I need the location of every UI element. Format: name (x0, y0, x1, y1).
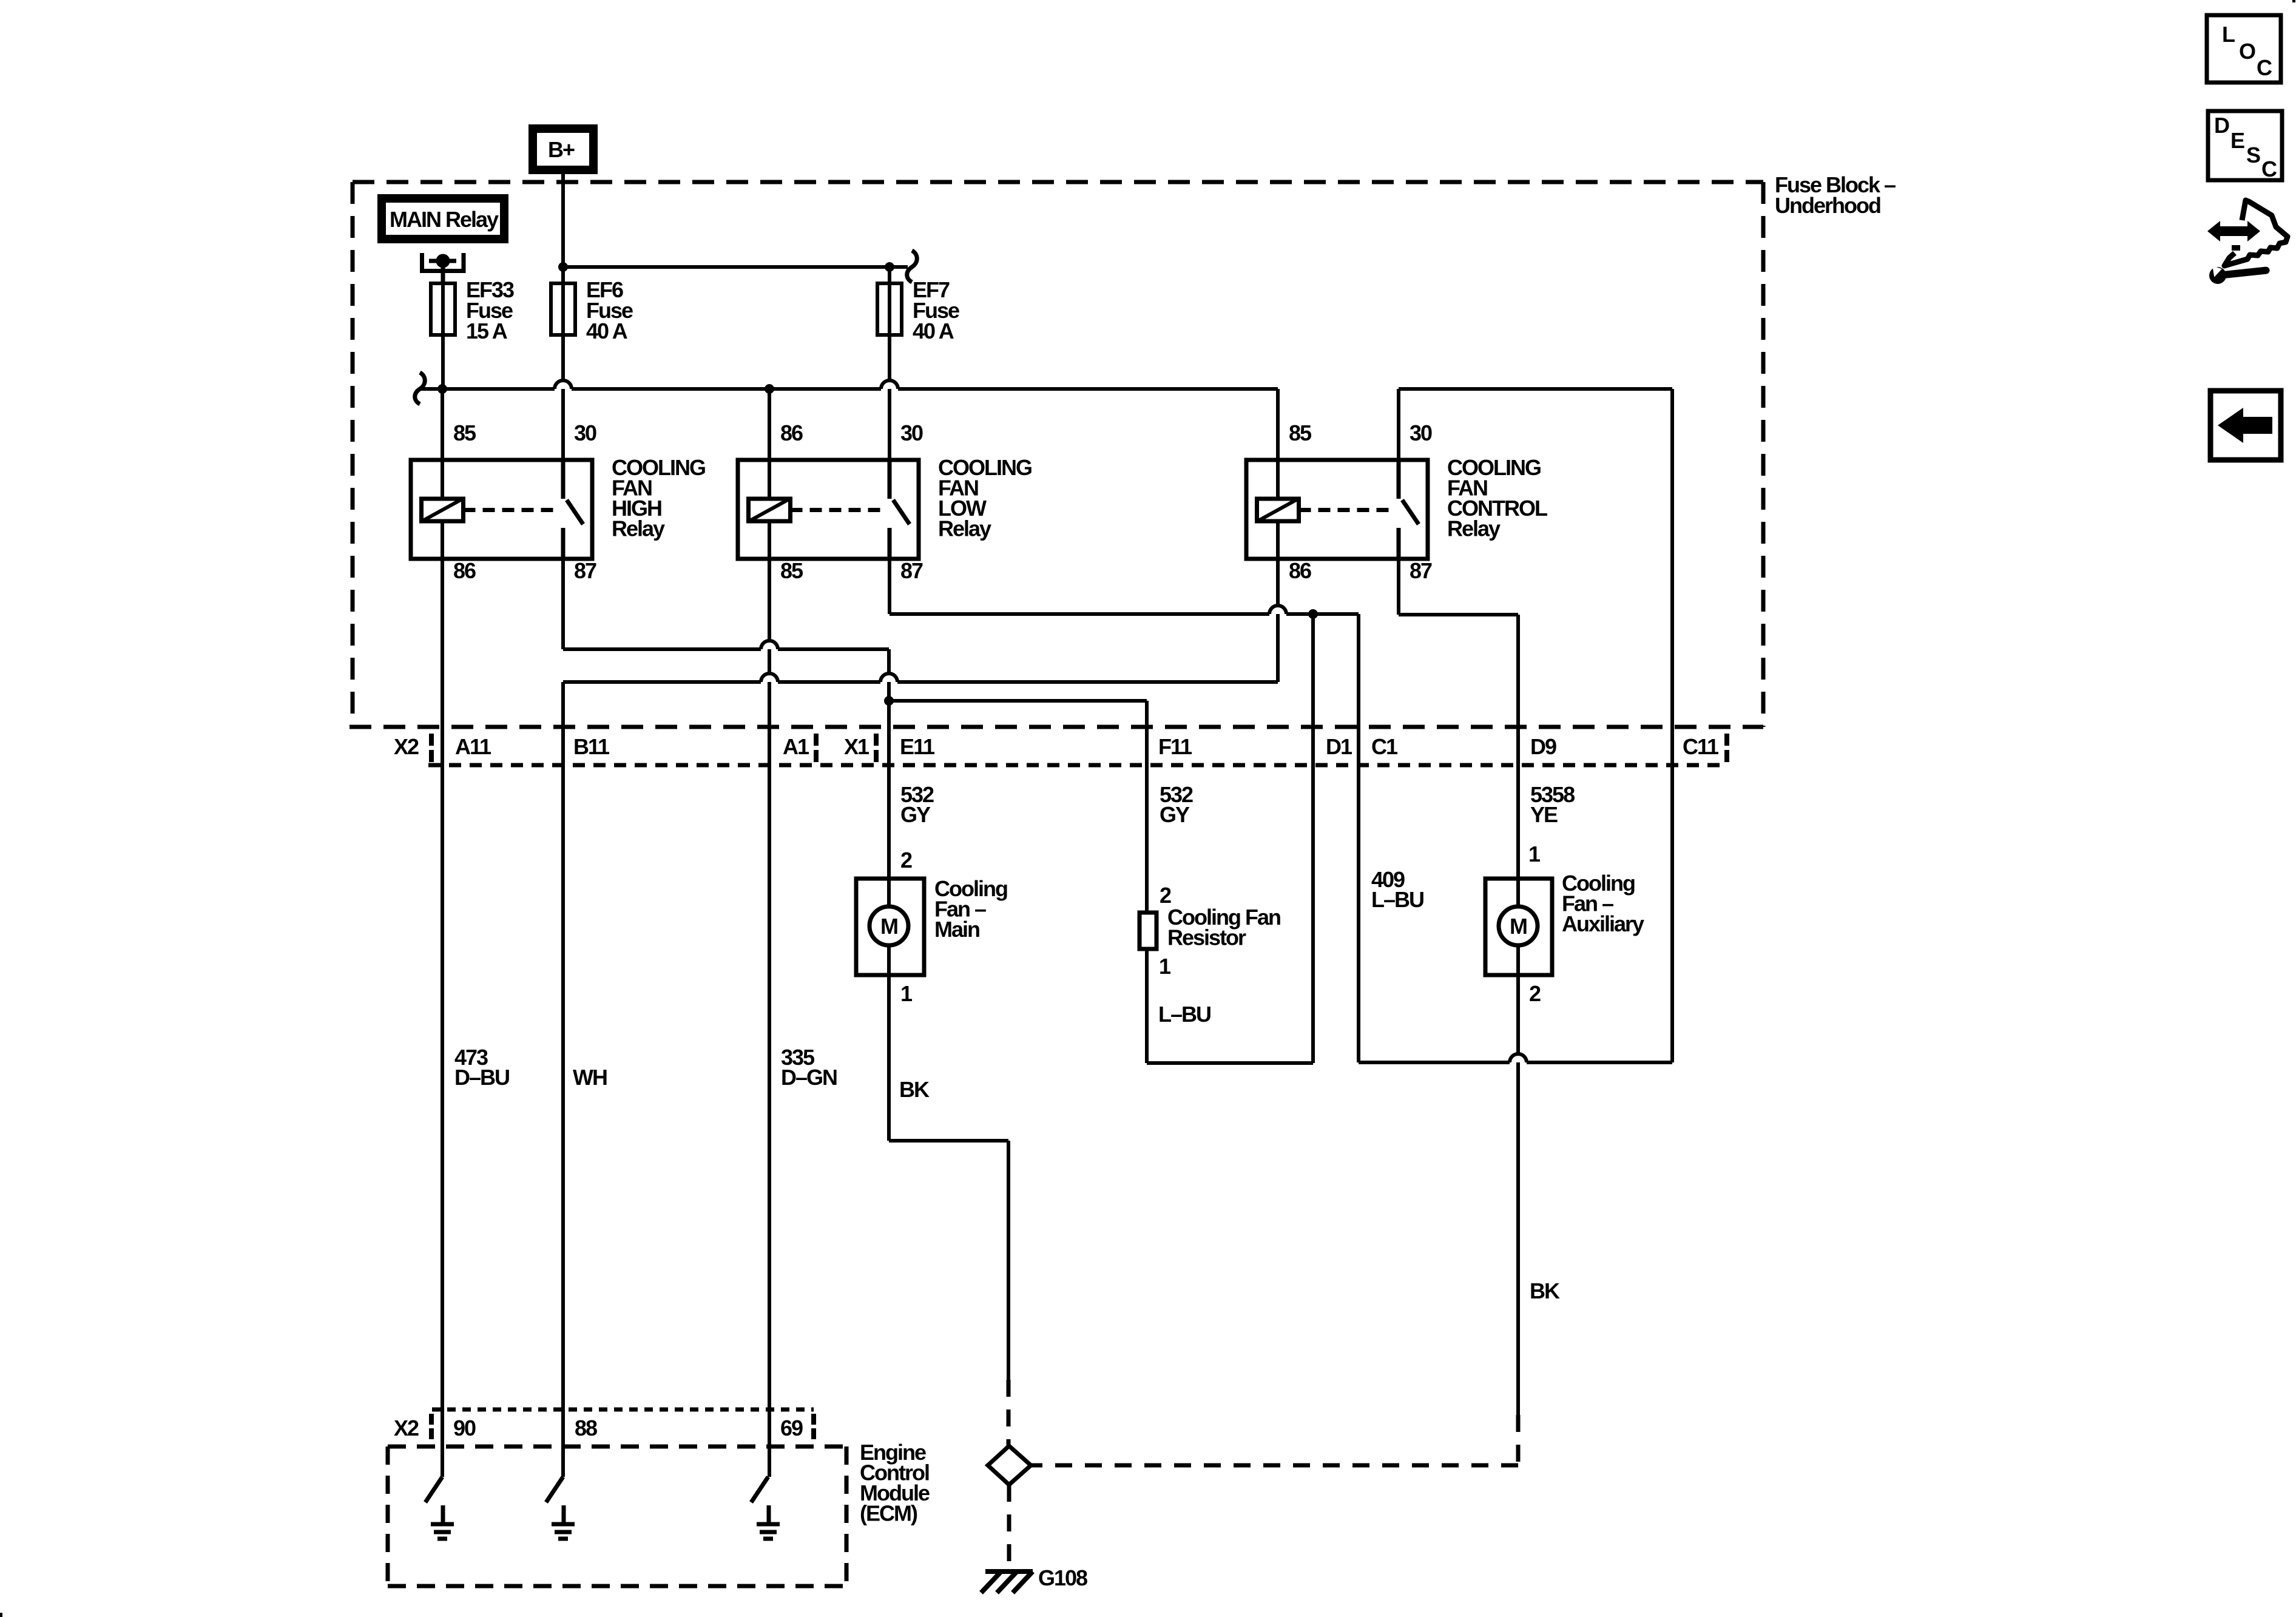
svg-text:Relay: Relay (612, 516, 665, 541)
ECM connector labels X2 90 88 69 (394, 1416, 803, 1440)
ECM connector row dotted line (432, 1408, 814, 1412)
icon LOC box (2207, 15, 2281, 83)
relay COOLING FAN HIGH coil-to-contact dashed link (464, 508, 559, 512)
dashed wire splice to G108 (1007, 1485, 1011, 1570)
svg-text:D–BU: D–BU (454, 1065, 509, 1090)
svg-text:M: M (880, 914, 897, 939)
relay COOLING FAN LOW switch contact (890, 460, 910, 559)
relay COOLING FAN LOW name label (938, 455, 1032, 541)
svg-text:1: 1 (1528, 842, 1541, 866)
wire B+ to EF7 link with junction dots (558, 262, 908, 272)
wire EF33 bus junction to high relay pin 85 (441, 389, 444, 460)
wire B+ down to EF6 fuse (561, 174, 565, 283)
fuse EF33 15A (431, 277, 514, 343)
svg-text:C: C (2257, 55, 2272, 80)
ECM box dashed (388, 1447, 846, 1586)
svg-text:87: 87 (574, 558, 596, 583)
wire low relay 87 right to C1 with D1 junction (890, 559, 1359, 619)
ECM connector separator marks (431, 1414, 814, 1439)
svg-text:G108: G108 (1038, 1565, 1087, 1590)
svg-text:C11: C11 (1683, 734, 1719, 759)
label Engine Control Module (ECM) (860, 1440, 930, 1526)
corner tick bottom-left (0, 1613, 2, 1617)
svg-text:O: O (2239, 39, 2255, 64)
svg-text:Auxiliary: Auxiliary (1562, 911, 1644, 936)
wire low relay 85 to ECM connector A1/69 (768, 559, 771, 1477)
svg-text:85: 85 (780, 558, 803, 583)
svg-text:Relay: Relay (1447, 516, 1501, 541)
relay COOLING FAN CONTROL coil-to-contact dashed link (1299, 508, 1394, 512)
corner tick top-right (2292, 0, 2295, 2)
svg-text:85: 85 (453, 420, 476, 445)
svg-text:E: E (2230, 128, 2244, 153)
bus wire fuses to relay coils with crossover bumps (421, 380, 1278, 394)
svg-text:1: 1 (900, 981, 913, 1006)
svg-text:15 A: 15 A (466, 319, 508, 343)
svg-text:88: 88 (575, 1416, 597, 1440)
svg-text:BK: BK (899, 1077, 930, 1102)
svg-text:B+: B+ (548, 137, 575, 162)
svg-text:86: 86 (780, 420, 803, 445)
ECM driver switch and ground for pin 69 (751, 1477, 780, 1539)
wire label 5358 YE (D9) (1530, 782, 1575, 827)
dashed wire to splice diamond (1007, 1380, 1011, 1447)
connector pin labels X2 A11 B11 A1 X1 E11 F11 D1 C1 D9 C11 (394, 734, 1719, 759)
wire high relay 86 to ECM connector A11/90 (441, 559, 444, 1477)
wire EF6 fuse to high relay pin 30 (561, 335, 565, 460)
relay COOLING FAN HIGH pin labels (453, 420, 596, 583)
svg-text:C: C (2261, 157, 2277, 181)
svg-text:L–BU: L–BU (1371, 887, 1423, 912)
svg-text:30: 30 (900, 420, 923, 445)
motor Cooling Fan - Auxiliary (1485, 879, 1552, 975)
label Fuse Block - Underhood (1775, 172, 1896, 218)
relay COOLING FAN HIGH coil (422, 460, 464, 559)
svg-text:BK: BK (1530, 1278, 1560, 1303)
ECM driver switch and ground for pin 90 (425, 1477, 454, 1539)
wire EF33 fuse to bus junction (441, 335, 445, 389)
relay COOLING FAN LOW pin labels (780, 420, 923, 583)
resistor Cooling Fan Resistor (1140, 905, 1280, 950)
svg-text:2: 2 (900, 848, 912, 873)
wire EF7 fuse to low relay pin 30 (888, 335, 891, 460)
svg-text:YE: YE (1530, 802, 1558, 827)
fuse EF6 40A (551, 277, 633, 343)
wire bus to control relay pin 85 (1276, 389, 1280, 460)
wire label 473 D-BU (A11) (454, 1045, 509, 1090)
icon DESC box (2208, 111, 2282, 181)
svg-text:S: S (2246, 143, 2260, 167)
relay COOLING FAN LOW box (738, 460, 919, 559)
svg-text:GY: GY (1160, 802, 1190, 827)
ECM driver switch and ground for pin 88 (546, 1477, 575, 1539)
fuse EF7 40A (877, 267, 959, 343)
relay COOLING FAN HIGH name label (612, 455, 705, 541)
svg-text:86: 86 (453, 558, 476, 583)
svg-text:L: L (2222, 22, 2235, 47)
svg-text:Underhood: Underhood (1775, 193, 1880, 218)
wire control relay 86 left to B11 drop (563, 559, 1278, 682)
relay COOLING FAN HIGH box (411, 460, 592, 559)
svg-text:Resistor: Resistor (1167, 925, 1246, 950)
svg-text:D–GN: D–GN (781, 1065, 837, 1090)
MAIN Relay contact symbol (422, 253, 464, 283)
icon back arrow box (2210, 391, 2281, 460)
svg-text:(ECM): (ECM) (860, 1501, 917, 1526)
relay COOLING FAN CONTROL pin labels (1289, 420, 1432, 583)
svg-text:F11: F11 (1158, 734, 1192, 759)
fuse block connector row dashed lines (349, 727, 1763, 765)
wire high relay 87 down and right to E11 drop (563, 559, 889, 649)
battery feed B+ box (533, 129, 593, 170)
svg-text:2: 2 (1160, 883, 1171, 908)
svg-text:GY: GY (900, 802, 931, 827)
wire main fan pin1 BK to splice (889, 975, 1008, 1380)
svg-text:1: 1 (1159, 954, 1171, 979)
svg-text:90: 90 (453, 1416, 476, 1440)
svg-text:87: 87 (1410, 558, 1432, 583)
svg-text:D1: D1 (1326, 734, 1352, 759)
wire label 532 GY (E11) (900, 782, 934, 827)
wire E11 drop with junction to F11 branch (884, 649, 894, 879)
wire break curl at EF7 link end (907, 251, 917, 282)
relay COOLING FAN LOW coil (749, 460, 791, 559)
svg-text:69: 69 (780, 1416, 803, 1440)
wire label 409 L-BU (C1) (1371, 867, 1423, 912)
svg-text:30: 30 (574, 420, 596, 445)
label Cooling Fan - Main (934, 876, 1007, 942)
svg-text:87: 87 (900, 558, 923, 583)
svg-text:MAIN Relay: MAIN Relay (390, 207, 499, 232)
wire E11 junction to F11 resistor feed (889, 701, 1147, 913)
relay COOLING FAN LOW coil-to-contact dashed link (791, 508, 885, 512)
svg-text:A11: A11 (455, 734, 491, 759)
svg-text:Main: Main (934, 917, 979, 942)
svg-text:C1: C1 (1371, 734, 1398, 759)
connector separator marks (431, 734, 1727, 762)
relay COOLING FAN CONTROL box (1246, 460, 1428, 559)
svg-text:WH: WH (573, 1065, 607, 1090)
svg-text:X1: X1 (844, 734, 869, 759)
splice diamond (988, 1446, 1031, 1485)
ground G108 (981, 1565, 1087, 1593)
wire label 532 GY (F11) (1160, 782, 1193, 827)
svg-text:E11: E11 (900, 734, 935, 759)
svg-text:86: 86 (1289, 558, 1311, 583)
wire C1 down around to C11 and control relay 30 (1359, 389, 1672, 1062)
wire label 335 D-GN (A1) (781, 1045, 837, 1090)
relay COOLING FAN CONTROL switch contact (1399, 460, 1419, 559)
svg-text:D: D (2214, 113, 2229, 138)
svg-text:85: 85 (1289, 420, 1312, 445)
svg-text:X2: X2 (394, 734, 419, 759)
svg-text:40 A: 40 A (913, 319, 954, 343)
MAIN Relay box (382, 198, 504, 239)
wire D1 junction down to resistor return loop (1147, 614, 1313, 1063)
wire B11 drop to ECM connector 88 (561, 682, 565, 1477)
svg-text:30: 30 (1410, 420, 1432, 445)
wire control relay 87 to D9 aux fan feed (1399, 559, 1518, 879)
wire bus to low relay pin 86 (768, 389, 771, 460)
motor Cooling Fan - Main (856, 879, 924, 975)
svg-text:B11: B11 (573, 734, 610, 759)
icon adjust/service (double arrow, part outline, wrench) (2207, 200, 2288, 285)
relay COOLING FAN CONTROL coil (1257, 460, 1299, 559)
svg-text:D9: D9 (1530, 734, 1556, 759)
dashed wire aux BK to splice diamond (1031, 1415, 1518, 1465)
relay COOLING FAN CONTROL name label (1447, 455, 1547, 541)
wire break curl at bus left end (415, 373, 425, 404)
svg-text:Relay: Relay (938, 516, 991, 541)
relay COOLING FAN HIGH switch contact (563, 460, 583, 559)
svg-text:40 A: 40 A (586, 319, 628, 343)
svg-text:M: M (1510, 914, 1527, 939)
Fuse Block - Underhood dashed border (353, 182, 1763, 727)
wire aux fan pin2 BK down (1516, 975, 1520, 1415)
svg-text:L–BU: L–BU (1158, 1002, 1210, 1027)
svg-text:2: 2 (1529, 981, 1541, 1006)
svg-text:X2: X2 (394, 1416, 419, 1440)
svg-text:A1: A1 (783, 734, 809, 759)
label Cooling Fan - Auxiliary (1562, 871, 1644, 936)
